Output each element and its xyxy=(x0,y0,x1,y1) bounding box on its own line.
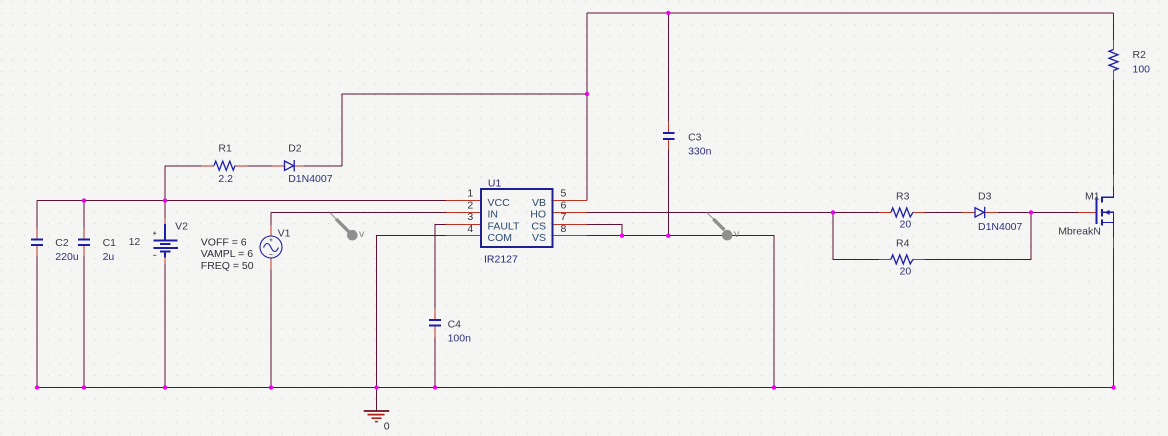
svg-text:VCC: VCC xyxy=(488,197,511,209)
svg-text:C3: C3 xyxy=(688,132,702,144)
lead M1 drain xyxy=(1113,175,1115,187)
svg-text:VB: VB xyxy=(532,197,546,209)
svg-text:V1: V1 xyxy=(278,228,291,240)
wire CS jog xyxy=(587,224,622,235)
svg-text:D3: D3 xyxy=(978,191,992,203)
node VS C3 xyxy=(666,234,670,238)
wire right column lower xyxy=(1113,80,1115,388)
resistor R3 xyxy=(891,208,913,217)
node VCC rail C1 xyxy=(82,198,86,202)
svg-text:MbreakN: MbreakN xyxy=(1058,226,1101,238)
svg-text:D2: D2 xyxy=(288,143,302,155)
lead C3 xyxy=(667,121,669,150)
svg-text:C2: C2 xyxy=(55,237,69,249)
svg-text:6: 6 xyxy=(561,199,567,211)
svg-text:7: 7 xyxy=(561,211,567,223)
wire COM to ground xyxy=(377,236,447,388)
svg-text:v: v xyxy=(734,228,740,240)
svg-text:220u: 220u xyxy=(55,251,79,263)
node CS VS join xyxy=(620,234,624,238)
wire bottom rail xyxy=(37,387,1114,389)
diode D3 xyxy=(975,207,985,218)
wire C4 bottom xyxy=(434,337,436,388)
svg-text:C4: C4 xyxy=(448,319,462,331)
pin stubs U1 right xyxy=(553,201,588,236)
svg-text:4: 4 xyxy=(467,223,473,235)
node bottom C4 xyxy=(433,385,437,389)
node bottom VS xyxy=(772,385,776,389)
transistor M1 xyxy=(1097,187,1114,239)
svg-text:VOFF = 6: VOFF = 6 xyxy=(201,237,247,249)
wire R1 D2 horizontal xyxy=(165,165,342,167)
node R3 R4 right xyxy=(1029,210,1033,214)
wire VS net xyxy=(587,236,774,388)
svg-text:R3: R3 xyxy=(896,191,910,203)
node bottom M1 xyxy=(1111,385,1115,389)
svg-text:IR2127: IR2127 xyxy=(484,254,518,266)
wire VCC rail xyxy=(37,200,446,202)
svg-text:12: 12 xyxy=(129,236,141,248)
lead V2 xyxy=(164,218,166,264)
wire right column upper xyxy=(1113,13,1115,40)
node VCC rail V2 xyxy=(163,198,167,202)
wire V2 column xyxy=(164,201,166,388)
svg-text:C1: C1 xyxy=(103,237,117,249)
wire HO to R3 xyxy=(833,211,1031,213)
node bottom V2 xyxy=(163,385,167,389)
node VB corner xyxy=(585,92,589,96)
svg-text:8: 8 xyxy=(561,223,567,235)
lead C1 xyxy=(83,229,85,257)
node bottom V1 xyxy=(269,385,273,389)
svg-text:IN: IN xyxy=(488,209,499,221)
node HO R3 R4 left xyxy=(831,210,835,214)
capacitor C1 xyxy=(78,239,90,245)
svg-text:R1: R1 xyxy=(218,143,232,155)
node bottom C1 xyxy=(82,385,86,389)
resistor R4 xyxy=(891,255,913,264)
wire top rail xyxy=(587,12,1114,14)
svg-text:D1N4007: D1N4007 xyxy=(288,173,333,185)
wire V1 down xyxy=(270,270,272,388)
lead C2 xyxy=(36,229,38,257)
voltage probe on HO/VS xyxy=(707,213,740,241)
svg-text:3: 3 xyxy=(467,211,473,223)
wire IN net xyxy=(271,211,446,213)
svg-text:100n: 100n xyxy=(448,333,472,345)
svg-text:v: v xyxy=(359,228,365,240)
wire vertical x587 VB riser xyxy=(586,13,588,201)
wire R4 branch xyxy=(833,212,1031,259)
pin stubs U1 left xyxy=(446,201,481,236)
svg-text:R2: R2 xyxy=(1133,49,1147,61)
resistor R2 xyxy=(1109,50,1118,71)
svg-text:U1: U1 xyxy=(488,178,502,190)
capacitor C3 xyxy=(663,133,675,139)
svg-text:0: 0 xyxy=(384,420,390,432)
wire C3 branch xyxy=(667,13,669,236)
svg-text:FREQ = 50: FREQ = 50 xyxy=(201,260,254,272)
voltage probe on IN xyxy=(330,213,365,241)
svg-text:1: 1 xyxy=(467,188,473,200)
source V1 xyxy=(260,236,282,258)
svg-text:20: 20 xyxy=(900,218,912,230)
node bottom ground xyxy=(374,385,378,389)
resistor R1 xyxy=(214,161,235,170)
capacitor C4 xyxy=(429,320,441,326)
battery V2 xyxy=(153,224,178,258)
wire V1 riser xyxy=(270,212,272,225)
lead D3 xyxy=(962,211,998,213)
svg-text:CS: CS xyxy=(531,220,546,232)
wire HO net xyxy=(587,211,833,213)
svg-text:VAMPL = 6: VAMPL = 6 xyxy=(201,248,253,260)
lead R2 xyxy=(1113,40,1115,80)
wire FAULT to C4 xyxy=(435,224,446,308)
svg-text:20: 20 xyxy=(900,265,912,277)
lead R3 xyxy=(879,211,925,213)
node top rail C3 xyxy=(666,11,670,15)
svg-text:2: 2 xyxy=(467,199,473,211)
node bottom C2 xyxy=(35,385,39,389)
svg-text:V2: V2 xyxy=(175,221,188,233)
op-amp U1 chip box xyxy=(481,189,553,247)
lead D2 xyxy=(272,165,304,167)
svg-text:330n: 330n xyxy=(688,146,712,158)
svg-text:R4: R4 xyxy=(896,238,910,250)
capacitor C2 xyxy=(31,239,43,245)
svg-text:5: 5 xyxy=(561,188,567,200)
svg-text:M1: M1 xyxy=(1085,190,1100,202)
wire gate lead-in xyxy=(1031,211,1078,213)
lead R4 xyxy=(879,258,925,260)
svg-text:COM: COM xyxy=(488,232,513,244)
wire D2 to top corner xyxy=(342,94,587,166)
svg-text:2.2: 2.2 xyxy=(218,173,233,185)
wire ground stub xyxy=(376,388,378,412)
lead M1 gate xyxy=(1078,211,1096,213)
lead C4 xyxy=(434,309,436,338)
svg-text:VS: VS xyxy=(532,232,546,244)
svg-text:100: 100 xyxy=(1133,64,1151,76)
wire D2 branch vertical from V2 xyxy=(164,166,166,201)
lead M1 source xyxy=(1113,238,1115,248)
svg-text:D1N4007: D1N4007 xyxy=(978,221,1023,233)
svg-text:FAULT: FAULT xyxy=(488,220,520,232)
diode D2 xyxy=(285,160,295,171)
svg-text:2u: 2u xyxy=(103,251,115,263)
svg-text:HO: HO xyxy=(530,209,546,221)
wire C2 column xyxy=(36,201,38,388)
ground xyxy=(364,411,389,422)
wire C1 column xyxy=(83,201,85,388)
lead V1 xyxy=(270,225,272,270)
lead R1 xyxy=(201,165,248,167)
